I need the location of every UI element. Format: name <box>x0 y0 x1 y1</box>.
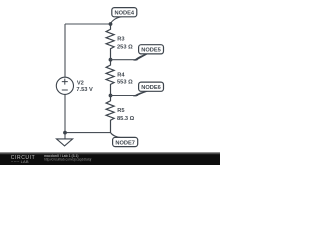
wire bottom horizontal <box>65 132 111 134</box>
wire left vertical bottom (V2 bottom lead) <box>64 94 66 133</box>
junction dot (ground node) <box>63 131 67 135</box>
svg-text:http:∕∕circuitlab.com∕c∕pcsqdd: http:∕∕circuitlab.com∕c∕pcsqddtatqr <box>44 158 93 162</box>
svg-text:NODE5: NODE5 <box>141 48 161 54</box>
svg-text:85.3 Ω: 85.3 Ω <box>117 116 135 122</box>
svg-text:−∼− LAB: −∼− LAB <box>11 159 29 164</box>
svg-text:NODE6: NODE6 <box>141 85 161 91</box>
wire NODE6 stub <box>111 95 138 97</box>
svg-text:NODE7: NODE7 <box>115 140 135 146</box>
node flag NODE4 <box>110 8 137 25</box>
svg-text:R3: R3 <box>117 37 124 43</box>
svg-text:553 Ω: 553 Ω <box>117 80 133 86</box>
node NODE5 junction dot <box>109 58 113 62</box>
resistor R5 <box>106 96 135 133</box>
watermark bar <box>0 152 220 165</box>
node flag NODE6 <box>134 82 163 96</box>
resistor R4 <box>106 60 133 96</box>
wire NODE5 stub <box>111 59 138 61</box>
svg-text:7.53 V: 7.53 V <box>76 87 93 93</box>
svg-text:R4: R4 <box>117 72 125 78</box>
svg-text:NODE4: NODE4 <box>114 11 134 17</box>
svg-text:R5: R5 <box>117 108 124 114</box>
wire left vertical top (V2 top lead) <box>64 24 66 77</box>
voltage source V2 <box>56 77 93 94</box>
ground <box>57 133 73 146</box>
svg-text:V2: V2 <box>77 80 84 86</box>
node flag NODE7 <box>110 132 137 146</box>
watermark CircuitLab logo <box>11 155 35 164</box>
node NODE4 junction dot <box>109 22 113 26</box>
svg-text:253 Ω: 253 Ω <box>117 44 133 50</box>
wire top horizontal <box>65 23 111 25</box>
resistor R3 <box>106 24 133 60</box>
node NODE6 junction dot <box>109 94 113 98</box>
node flag NODE5 <box>134 45 163 61</box>
